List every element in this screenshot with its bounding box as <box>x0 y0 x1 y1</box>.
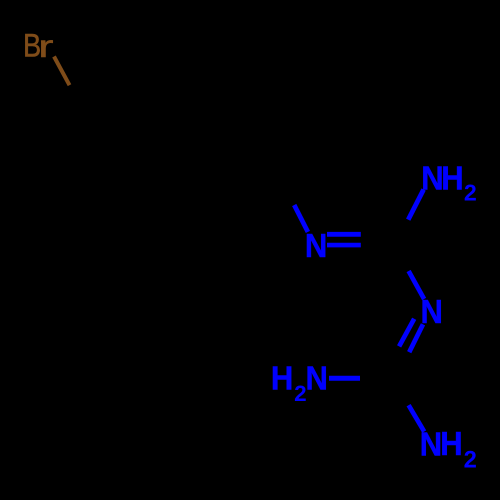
bond C2 to top NH2 (blue half) <box>408 190 423 220</box>
double bond N3=C4 main line <box>409 324 423 352</box>
svg-text:H: H <box>441 160 463 197</box>
svg-text:2: 2 <box>464 447 477 474</box>
svg-text:H: H <box>271 359 293 396</box>
svg-text:N: N <box>305 227 327 264</box>
bond C2 to N3 (blue half) <box>409 271 425 299</box>
bond Br to ring carbon (brown half) <box>54 57 70 86</box>
double bond N1=C2 lower line <box>327 243 361 248</box>
svg-text:H: H <box>440 425 462 462</box>
bond C4 to H2N (blue half) <box>329 376 360 381</box>
svg-text:N: N <box>306 359 328 396</box>
double bond N3=C4 inner line <box>399 319 414 347</box>
double bond N1=C2 upper line <box>327 232 361 237</box>
svg-text:2: 2 <box>464 180 477 206</box>
bond CH2 to N1 (blue half) <box>294 205 308 232</box>
svg-text:r: r <box>38 28 54 64</box>
bond C4 to bottom NH2 (blue half) <box>409 405 425 431</box>
